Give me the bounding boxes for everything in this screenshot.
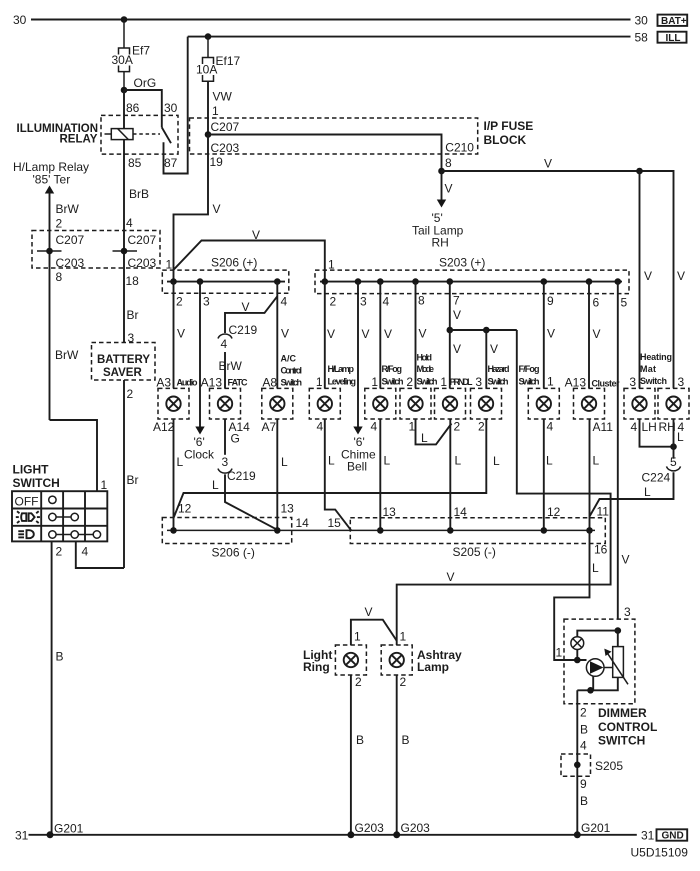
- svg-text:V: V: [419, 327, 427, 341]
- battery saver box: [92, 343, 156, 381]
- svg-text:15: 15: [328, 516, 342, 530]
- svg-text:Ef7: Ef7: [132, 44, 150, 58]
- wire V S203 pin6 to cluster lamp: [588, 282, 590, 389]
- svg-text:1: 1: [400, 630, 407, 644]
- lamp A3 audio illumination: [153, 376, 198, 435]
- svg-text:BrW: BrW: [56, 202, 80, 216]
- svg-text:2: 2: [454, 420, 461, 434]
- wire L R/fog lamp to S205 pin13: [379, 419, 381, 530]
- connector C224 pin5 half: [667, 466, 681, 471]
- svg-text:Ef17: Ef17: [216, 54, 241, 68]
- light switch headlamp icon: [18, 530, 34, 538]
- wire OrG fuse Ef7 to relay node: [123, 72, 125, 90]
- wire V branch to light ring: [351, 620, 397, 645]
- svg-text:4: 4: [221, 337, 228, 351]
- svg-text:L: L: [328, 454, 335, 468]
- wire B light ring to G203: [350, 675, 352, 835]
- svg-text:Mat: Mat: [640, 364, 656, 374]
- svg-text:I/P FUSE: I/P FUSE: [484, 119, 534, 133]
- potentiometer R1 dimmer: [613, 647, 624, 678]
- svg-text:L: L: [677, 430, 684, 444]
- svg-text:LIGHT: LIGHT: [13, 463, 50, 477]
- wire L audio lamp to S206 pin12: [173, 419, 175, 530]
- svg-text:Bell: Bell: [347, 460, 367, 474]
- node 58 ILL rail: [188, 36, 631, 38]
- wire BrW from 85 Ter arrow down: [49, 193, 51, 420]
- wire VW fuse Ef17 to C207 pin1: [207, 81, 209, 134]
- svg-text:B: B: [580, 723, 588, 737]
- svg-text:LH: LH: [642, 420, 657, 434]
- svg-text:2: 2: [127, 387, 134, 401]
- junction dot dimmer pin2 node: [587, 687, 594, 694]
- wire V link S206 to S203: [174, 241, 325, 282]
- junction dot S206 pin4: [274, 278, 281, 285]
- svg-text:Switch: Switch: [281, 378, 303, 388]
- wire B dimmer pin2 to S205 splice: [576, 690, 578, 835]
- junction dot C210 pin8 node: [438, 168, 445, 175]
- connector C219 pin3 half: [218, 469, 232, 474]
- svg-text:L: L: [644, 485, 651, 499]
- wire BrW C219 to FATC lamp: [224, 352, 226, 388]
- wire L cluster lamp to S205 pin11: [589, 419, 591, 530]
- svg-text:S206 (+): S206 (+): [211, 256, 257, 270]
- svg-text:5: 5: [621, 296, 628, 310]
- junction dot S205 pin14: [447, 527, 454, 534]
- lamp rear fog switch illumination: [365, 364, 404, 434]
- wire BrB relay coil 85 down to C207 pin4: [123, 140, 125, 343]
- junction dot S203 pin4: [377, 278, 384, 285]
- svg-text:3: 3: [678, 375, 685, 389]
- svg-text:V: V: [327, 327, 335, 341]
- svg-text:C203: C203: [56, 256, 85, 270]
- svg-text:B: B: [580, 794, 588, 808]
- junction dot S203 pin8: [412, 278, 419, 285]
- ground G203 light ring: [347, 831, 354, 838]
- svg-text:2: 2: [176, 295, 183, 309]
- svg-text:8: 8: [56, 270, 63, 284]
- svg-text:S203 (+): S203 (+): [439, 256, 485, 270]
- svg-text:4: 4: [383, 295, 390, 309]
- svg-text:A7: A7: [262, 420, 277, 434]
- wire OrG node to relay coil terminal 86: [123, 90, 125, 129]
- wire V S203 pin2 to H/lamp leveling lamp: [324, 282, 326, 389]
- svg-text:8: 8: [445, 156, 452, 170]
- junction dot S203 pin9: [541, 278, 548, 285]
- svg-text:R/Fog: R/Fog: [382, 364, 403, 374]
- svg-text:VW: VW: [213, 90, 233, 104]
- svg-text:V: V: [447, 570, 455, 584]
- svg-text:S206 (-): S206 (-): [212, 546, 255, 560]
- svg-text:3: 3: [624, 605, 631, 619]
- svg-text:4: 4: [82, 545, 89, 559]
- dimmer control switch box: [564, 619, 635, 704]
- svg-text:Lamp: Lamp: [417, 660, 449, 674]
- lamp PRNDL illumination: [435, 375, 474, 434]
- connector junction left pin 2/8: [37, 250, 62, 252]
- svg-text:V: V: [445, 182, 453, 196]
- svg-text:V: V: [362, 327, 370, 341]
- wire Br battery saver pin2 down: [123, 380, 125, 568]
- svg-text:L: L: [455, 454, 462, 468]
- svg-text:S205: S205: [595, 759, 623, 773]
- svg-text:PRNDL: PRNDL: [450, 377, 474, 387]
- svg-text:V: V: [365, 605, 373, 619]
- BAT+ box: [658, 15, 688, 26]
- svg-text:1: 1: [328, 258, 335, 272]
- svg-text:OFF: OFF: [15, 495, 39, 509]
- svg-text:8: 8: [418, 294, 425, 308]
- wire S203 pin3 arrow to chime bell: [357, 282, 359, 428]
- svg-text:C210: C210: [445, 141, 474, 155]
- wire lamp to pin1 node: [576, 650, 578, 661]
- svg-text:16: 16: [594, 543, 608, 557]
- wire from 30 rail to fuse Ef7: [123, 20, 125, 49]
- svg-text:Heating: Heating: [640, 352, 672, 362]
- svg-text:L: L: [421, 431, 428, 445]
- svg-text:RH: RH: [432, 236, 449, 250]
- GND box: [657, 829, 688, 840]
- wire S206 pin3 arrow to clock: [199, 282, 201, 428]
- wire L S205 pin16 to dimmer pin1: [554, 530, 589, 660]
- lamp ashtray: [381, 630, 462, 690]
- svg-text:Control: Control: [281, 366, 303, 376]
- ILL box: [658, 32, 687, 43]
- svg-text:ILL: ILL: [666, 33, 681, 44]
- junction dot hazard tap: [483, 327, 490, 334]
- svg-text:14: 14: [296, 516, 310, 530]
- svg-text:BrB: BrB: [129, 187, 149, 201]
- junction dot heating mat LH tap: [636, 168, 643, 175]
- svg-text:H/Lamp: H/Lamp: [328, 364, 355, 374]
- wire light switch pin4 to battery saver Br: [76, 541, 124, 568]
- junction dot dimmer pin1 node: [574, 657, 581, 664]
- wire B ashtray lamp to G203: [396, 675, 398, 835]
- svg-text:BAT+: BAT+: [661, 16, 687, 27]
- wire V arrow to tail lamp RH: [441, 171, 443, 200]
- dimmer internal lamp: [571, 637, 584, 650]
- svg-text:10A: 10A: [196, 62, 217, 76]
- svg-text:L: L: [212, 478, 219, 492]
- svg-text:1: 1: [409, 420, 416, 434]
- wire V heating mat LH: [639, 171, 641, 388]
- lamp light ring: [303, 630, 366, 690]
- junction dot S203 pin5: [615, 278, 622, 285]
- wire V S203 pin9 to F/fog lamp: [543, 282, 545, 389]
- svg-text:BLOCK: BLOCK: [484, 133, 527, 147]
- wire V branch S206 pin4 to C219: [225, 296, 277, 333]
- svg-text:Switch: Switch: [640, 376, 667, 386]
- svg-text:G: G: [231, 432, 240, 446]
- svg-text:C203: C203: [128, 256, 157, 270]
- svg-text:V: V: [453, 308, 461, 322]
- wire L hazard lamp to audio return node: [174, 419, 487, 518]
- svg-text:Cluster: Cluster: [592, 379, 620, 389]
- lamp A13 cluster illumination: [565, 376, 620, 435]
- svg-text:1: 1: [316, 375, 323, 389]
- junction dot S205 pin13: [377, 527, 384, 534]
- svg-text:V: V: [242, 300, 250, 314]
- svg-text:Switch: Switch: [382, 377, 404, 387]
- wire V S206 pin2 to audio lamp: [173, 282, 175, 389]
- svg-text:C203: C203: [211, 141, 240, 155]
- svg-text:30: 30: [635, 14, 649, 28]
- svg-text:U5D15109: U5D15109: [631, 846, 689, 860]
- svg-text:30: 30: [13, 13, 27, 27]
- svg-text:1: 1: [101, 478, 108, 492]
- wire inside fuse block to C210 pin 8: [208, 135, 442, 172]
- svg-text:SWITCH: SWITCH: [13, 476, 60, 490]
- wire OrG node to relay terminal 30: [124, 90, 162, 127]
- junction dot dimmer pin3 node: [615, 627, 622, 634]
- svg-text:B: B: [356, 733, 364, 747]
- svg-text:1: 1: [440, 375, 447, 389]
- junction dot S203 pin3: [355, 278, 362, 285]
- svg-text:BrW: BrW: [55, 348, 79, 362]
- wire L C224 to S205 pin11: [590, 472, 674, 516]
- lamp heating mat switch LH illumination: [624, 375, 657, 434]
- wire V S203 pin8 to hold mode lamp: [415, 282, 417, 389]
- svg-text:GND: GND: [662, 831, 684, 842]
- transistor Q1 dimmer amplifier: [586, 659, 604, 677]
- wire L F/fog lamp to S205 pin12: [543, 419, 545, 530]
- svg-text:2: 2: [478, 420, 485, 434]
- lamp A8 A/C control switch illumination: [262, 354, 303, 435]
- wire L heating mat LH pin4 to RH return: [640, 419, 674, 447]
- junction dot OrG node: [121, 87, 128, 94]
- svg-text:G203: G203: [401, 821, 431, 835]
- svg-text:Switch: Switch: [519, 377, 540, 387]
- svg-text:86: 86: [126, 101, 140, 115]
- svg-text:13: 13: [383, 505, 397, 519]
- splice S205 box: [561, 754, 591, 776]
- light switch contact row OFF: [49, 496, 56, 503]
- svg-text:V: V: [547, 327, 555, 341]
- svg-text:3: 3: [203, 295, 210, 309]
- svg-text:2: 2: [580, 706, 587, 720]
- junction dot pin7 branch at PRNDL: [447, 327, 454, 334]
- lamp heating mat switch RH illumination: [658, 375, 689, 434]
- svg-text:4: 4: [317, 420, 324, 434]
- lamp hold mode switch illumination: [400, 353, 438, 434]
- connector C219 pin4 half: [218, 334, 232, 339]
- svg-text:3: 3: [475, 375, 482, 389]
- svg-text:Clock: Clock: [184, 448, 215, 462]
- wire V S203 pin4 to R/fog lamp: [379, 282, 381, 389]
- svg-text:FATC: FATC: [228, 378, 249, 388]
- wire B light switch pin2 to G201: [51, 541, 53, 834]
- svg-text:Br: Br: [127, 473, 139, 487]
- splice S206 (-) box: [162, 518, 291, 544]
- ground G201 left: [47, 831, 54, 838]
- svg-text:18: 18: [126, 274, 140, 288]
- wire L A/C lamp to S206 pin13: [276, 419, 278, 530]
- fuse Ef17 10A: [203, 58, 214, 65]
- svg-text:L: L: [593, 454, 600, 468]
- svg-text:A13: A13: [565, 376, 587, 390]
- junction dot S206 pin2: [170, 278, 177, 285]
- wire S206 (+) bus: [167, 281, 285, 283]
- svg-text:B: B: [56, 650, 64, 664]
- svg-text:RELAY: RELAY: [60, 134, 98, 146]
- svg-text:L: L: [281, 455, 288, 469]
- svg-text:C224: C224: [642, 471, 671, 485]
- wire V to heating mat switch lamps: [442, 171, 674, 388]
- wire V C203 pin19 to S206 pin1: [174, 135, 209, 282]
- svg-text:V: V: [644, 269, 652, 283]
- svg-text:F/Fog: F/Fog: [519, 364, 540, 374]
- svg-text:L: L: [384, 454, 391, 468]
- svg-text:19: 19: [210, 155, 224, 169]
- svg-text:Mode: Mode: [417, 364, 435, 374]
- wire V S203 pin5 to dimmer control switch: [617, 282, 619, 619]
- wire 30 rail: [31, 19, 631, 21]
- svg-text:9: 9: [547, 294, 554, 308]
- wire V to hazard lamp: [485, 330, 487, 388]
- svg-text:G203: G203: [355, 821, 385, 835]
- light switch park icon: [16, 511, 40, 523]
- svg-text:L: L: [493, 454, 500, 468]
- svg-text:V: V: [453, 342, 461, 356]
- relay switch blade 30-87: [162, 127, 171, 143]
- svg-text:CONTROL: CONTROL: [598, 720, 657, 734]
- wire dimmer pin3 to internal lamp: [577, 631, 618, 637]
- svg-text:12: 12: [547, 505, 561, 519]
- svg-text:4: 4: [580, 739, 587, 753]
- svg-text:Switch: Switch: [488, 377, 509, 387]
- svg-text:A8: A8: [262, 376, 277, 390]
- lamp A13 FATC illumination: [201, 376, 251, 446]
- junction dot S203 pin2: [322, 278, 329, 285]
- svg-text:85: 85: [128, 156, 142, 170]
- svg-text:2: 2: [400, 675, 407, 689]
- svg-text:2: 2: [56, 545, 63, 559]
- wire S203 (+) bus: [320, 281, 622, 283]
- svg-text:3: 3: [629, 375, 636, 389]
- svg-text:14: 14: [454, 505, 468, 519]
- svg-text:BrW: BrW: [219, 359, 243, 373]
- wire V to PRNDL lamp: [449, 330, 451, 388]
- svg-text:1: 1: [166, 258, 173, 272]
- svg-text:5: 5: [670, 455, 677, 469]
- svg-text:G201: G201: [581, 821, 611, 835]
- svg-text:SWITCH: SWITCH: [598, 734, 645, 748]
- svg-text:'85' Ter: '85' Ter: [33, 173, 71, 187]
- svg-text:BATTERY: BATTERY: [97, 354, 150, 366]
- svg-text:V: V: [281, 327, 289, 341]
- svg-text:6: 6: [593, 296, 600, 310]
- svg-text:4: 4: [631, 420, 638, 434]
- svg-text:2: 2: [355, 675, 362, 689]
- svg-text:OrG: OrG: [134, 76, 157, 90]
- lamp hazard switch illumination: [471, 364, 510, 434]
- relay contact 87 wire to 58 rail: [164, 37, 188, 174]
- svg-text:Br: Br: [127, 308, 139, 322]
- svg-text:4: 4: [371, 420, 378, 434]
- junction dot S206 pin12: [170, 527, 177, 534]
- svg-text:A3: A3: [156, 376, 171, 390]
- svg-text:S205 (-): S205 (-): [453, 545, 496, 559]
- svg-text:58: 58: [635, 31, 649, 45]
- wire L FATC lamp to C219 pin3: [224, 419, 226, 455]
- svg-text:30: 30: [164, 101, 178, 115]
- wire pot and transistor to pin2 node: [577, 677, 618, 690]
- svg-text:4: 4: [281, 295, 288, 309]
- junction dot S203 pin6: [586, 278, 593, 285]
- svg-text:3: 3: [222, 455, 229, 469]
- junction dot S205 pin11: [586, 527, 593, 534]
- junction dot S205 pin12: [541, 527, 548, 534]
- svg-text:87: 87: [164, 156, 178, 170]
- svg-text:L: L: [592, 561, 599, 575]
- lamp front fog switch illumination: [519, 364, 560, 434]
- wire L negative bus line: [167, 529, 595, 531]
- svg-text:1: 1: [354, 630, 361, 644]
- wire L heating mat RH pin4 to C224: [673, 419, 675, 459]
- svg-text:V: V: [252, 228, 260, 242]
- splice S205 (-) box: [350, 518, 605, 544]
- svg-text:Ring: Ring: [303, 660, 330, 674]
- svg-text:V: V: [213, 202, 221, 216]
- lamp headlamp leveling switch illumination: [309, 364, 356, 434]
- svg-text:31: 31: [15, 829, 29, 843]
- svg-text:Hazard: Hazard: [488, 364, 510, 374]
- wire BrW down to light switch pin 1: [50, 420, 98, 491]
- junction dot S205 splice: [574, 762, 581, 769]
- svg-text:Leveling: Leveling: [328, 377, 357, 387]
- wire L hold mode lamp to PRNDL return: [416, 419, 452, 444]
- svg-text:L: L: [546, 454, 553, 468]
- svg-text:Audio: Audio: [177, 378, 199, 388]
- svg-text:2: 2: [406, 375, 413, 389]
- junction dot S203 pin7: [447, 278, 454, 285]
- junction dot S206 pin13: [274, 527, 281, 534]
- I/P fuse block box with C207/C203/C210: [190, 118, 478, 154]
- connector C207/C203 left box: [32, 231, 160, 269]
- svg-text:B: B: [402, 733, 410, 747]
- svg-text:1: 1: [371, 375, 378, 389]
- svg-text:1: 1: [556, 646, 563, 660]
- junction dot S206 pin3: [197, 278, 204, 285]
- connector junction right pin 4/18: [113, 250, 138, 252]
- svg-text:C207: C207: [56, 233, 85, 247]
- svg-text:7: 7: [453, 294, 460, 308]
- svg-text:A11: A11: [593, 420, 614, 434]
- svg-text:1: 1: [547, 375, 554, 389]
- svg-text:V: V: [677, 269, 685, 283]
- svg-text:A13: A13: [201, 376, 223, 390]
- svg-text:31: 31: [641, 829, 655, 843]
- svg-text:V: V: [593, 327, 601, 341]
- junction dot fuse Ef7 tap: [121, 16, 128, 23]
- splice S203 (+) box: [315, 270, 629, 294]
- junction dot heating mat return: [670, 443, 677, 450]
- svg-text:13: 13: [281, 502, 295, 516]
- svg-text:Switch: Switch: [417, 377, 438, 387]
- svg-text:V: V: [490, 342, 498, 356]
- svg-text:SAVER: SAVER: [103, 367, 142, 379]
- svg-text:V: V: [544, 157, 552, 171]
- svg-text:V: V: [622, 553, 630, 567]
- light switch contact row park: [49, 513, 56, 520]
- ground G203 ashtray: [393, 831, 400, 838]
- svg-text:V: V: [177, 327, 185, 341]
- svg-text:2: 2: [56, 217, 63, 231]
- svg-text:30A: 30A: [112, 53, 133, 67]
- relay K1 coil: [111, 129, 133, 140]
- wire 31 ground rail: [29, 834, 637, 836]
- svg-text:C207: C207: [211, 120, 240, 134]
- junction dot C207 pin1 node: [205, 131, 212, 138]
